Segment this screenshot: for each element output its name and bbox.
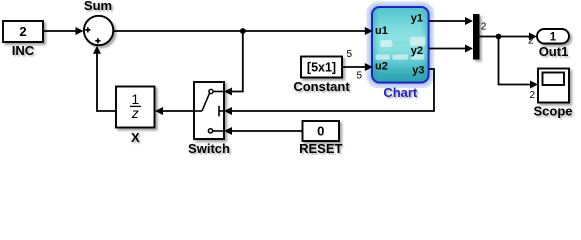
svg-text:2: 2: [481, 22, 487, 33]
wire Chart y2 to Mux input 2: [429, 45, 473, 53]
node junction on Sum output: [240, 28, 246, 34]
svg-text:X: X: [131, 130, 140, 145]
outport block Out1: [537, 29, 569, 44]
chart body: [372, 7, 429, 83]
svg-text:y3: y3: [412, 65, 424, 77]
svg-text:5: 5: [357, 71, 363, 82]
mux block: [473, 14, 480, 60]
wire Unit Delay X output to Sum bottom input: [93, 46, 116, 111]
svg-text:5: 5: [347, 49, 353, 60]
switch pole line from output: [194, 110, 202, 112]
chart mini state A: [380, 40, 393, 48]
switch input 1 contact circle: [209, 89, 213, 93]
svg-text:u1: u1: [375, 25, 388, 37]
constant block value 0 (RESET): [303, 121, 340, 141]
constant block [5x1] (Constant): [301, 57, 342, 78]
stateflow chart block Chart: [369, 4, 432, 86]
svg-text:Scope: Scope: [533, 104, 572, 119]
chart mini bar 2: [392, 54, 408, 59]
wire Chart y3 to Switch control input: [224, 69, 434, 115]
chart mini bar 1: [376, 54, 390, 59]
wire junction down to Scope: [499, 37, 539, 89]
svg-text:2: 2: [528, 36, 534, 47]
svg-text:[5x1]: [5x1]: [307, 61, 336, 75]
svg-text:2: 2: [530, 90, 536, 101]
svg-text:0: 0: [317, 124, 324, 139]
svg-text:Out1: Out1: [539, 44, 569, 59]
svg-text:RESET: RESET: [299, 141, 342, 155]
wire INC to Sum: [43, 27, 84, 35]
wire junction down to Switch input 1: [224, 31, 243, 96]
switch input 3 contact circle: [208, 129, 212, 133]
svg-text:z: z: [131, 105, 139, 121]
switch threshold marker: [218, 106, 220, 117]
scope block Scope: [538, 69, 569, 103]
sum block Sum: [84, 16, 113, 45]
unit delay block X (1/z): [116, 87, 155, 128]
node junction on Mux output: [496, 34, 502, 40]
wire RESET to Switch input 3: [224, 127, 302, 135]
svg-text:Sum: Sum: [84, 0, 112, 13]
svg-text:y2: y2: [411, 45, 423, 57]
wire Mux output to Out1: [480, 33, 538, 41]
svg-text:1: 1: [550, 32, 557, 44]
wire Chart y1 to Mux input 1: [429, 17, 473, 25]
svg-text:Chart: Chart: [383, 85, 418, 100]
wire Switch output to Unit Delay X: [155, 107, 194, 115]
wire Sum output to Chart u1: [114, 27, 373, 35]
svg-text:y1: y1: [411, 13, 423, 25]
chart selection halo: [369, 4, 432, 86]
svg-text:Constant: Constant: [293, 79, 350, 94]
svg-text:INC: INC: [12, 43, 35, 58]
chart mini state B: [410, 37, 426, 47]
svg-text:Switch: Switch: [188, 141, 230, 155]
switch arm diagonal: [202, 94, 209, 112]
constant block value 2 (INC): [3, 21, 43, 42]
chart transition line: [393, 42, 410, 43]
switch block Switch: [194, 82, 224, 139]
svg-text:2: 2: [19, 24, 26, 39]
wire Constant to Chart u2: [342, 63, 373, 71]
chart mini bar 3: [411, 54, 424, 59]
svg-text:u2: u2: [375, 60, 388, 72]
